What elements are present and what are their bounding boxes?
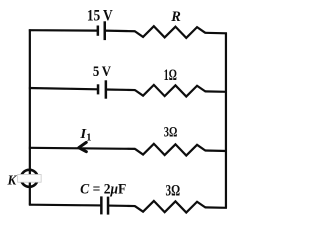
wire right rail (225, 33, 227, 208)
svg-text:1Ω: 1Ω (164, 67, 177, 84)
resistor 3ohm zigzag bottom (135, 201, 205, 213)
capacitor C left plate (100, 196, 103, 214)
battery B2 tall plate (105, 80, 108, 98)
wire bottom branch capacitor to resistor (108, 204, 135, 207)
svg-text:C = 2μF: C = 2μF (80, 181, 126, 197)
wire bottom branch left segment (29, 204, 102, 207)
switch K circle (21, 170, 38, 187)
wire top branch resistor to right rail (205, 32, 227, 35)
battery B1 tall plate (104, 21, 107, 40)
wire branch3 left segment with current (29, 148, 135, 149)
svg-text:K: K (6, 173, 17, 188)
current arrow I1 head (79, 142, 87, 151)
svg-text:5 V: 5 V (93, 63, 111, 80)
svg-text:3Ω: 3Ω (166, 183, 181, 200)
battery B1 short plate (97, 26, 100, 36)
wire top branch right of battery to resistor (105, 30, 136, 33)
svg-text:R: R (170, 9, 181, 25)
svg-text:1: 1 (86, 132, 91, 143)
svg-text:3Ω: 3Ω (164, 124, 178, 141)
svg-text:15 V: 15 V (87, 7, 113, 24)
wire branch2 left segment (29, 88, 98, 89)
wire bottom branch resistor to right rail (205, 206, 227, 209)
switch K white band (18, 175, 42, 183)
resistor 3ohm zigzag branch3 (135, 144, 205, 156)
battery B2 short plate (97, 84, 100, 94)
wire branch2 resistor to right rail (205, 90, 227, 93)
wire branch3 resistor to right rail (205, 149, 227, 152)
capacitor C right plate (107, 197, 110, 215)
resistor 1ohm zigzag (135, 85, 205, 97)
resistor R zigzag (135, 26, 205, 38)
wire left rail (29, 29, 31, 204)
wire top branch left segment (29, 29, 98, 32)
wire branch2 battery to resistor (106, 88, 135, 91)
